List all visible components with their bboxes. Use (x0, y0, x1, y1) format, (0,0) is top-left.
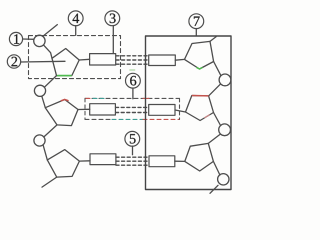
left strand 3-prime end tick (42, 177, 57, 187)
wire phosphate2R to sugar3R (208, 134, 220, 143)
wire phosphate1 to sugar1 (44, 45, 52, 58)
base rectangle left 1 (90, 54, 116, 65)
phosphate circle right 1 (219, 74, 231, 86)
pointer line from label 6 to base-pair red box (132, 88, 134, 99)
wire sugar3R to phosphate3R (213, 161, 220, 175)
deoxyribose pentagon left 3 (47, 150, 79, 178)
red tint on lower-right edge of right sugar 2 (205, 115, 209, 118)
red highlighted apex of sugar 2 (61, 99, 68, 100)
label circle 5 (125, 131, 140, 146)
label circle 1 (9, 32, 22, 45)
red dashed box around base pair row 2 (85, 98, 180, 119)
wire phosphate3 to sugar3 (43, 145, 47, 160)
deoxyribose pentagon left 1 (52, 49, 79, 76)
right strand 3-prime end tick (210, 185, 218, 193)
pointer line from label 7 to right strand box (195, 29, 197, 36)
pointer line from label 5 to hydrogen bonds row3 (132, 146, 134, 155)
wire sugar2R to phosphate2R (214, 113, 221, 126)
deoxyribose pentagon left 2 (45, 100, 78, 126)
label circle 3 (105, 11, 120, 26)
deoxyribose pentagon right 3 (185, 143, 214, 171)
left strand 5-prime end tick (43, 25, 57, 37)
wire base2R to sugar2R (175, 110, 186, 112)
wire sugar1-bottom to phosphate2 (44, 76, 56, 88)
wire sugar1R to phosphate1R (214, 62, 221, 76)
dashed box around nucleotide (label 4) (29, 36, 121, 79)
phosphate circle left 1 (34, 35, 45, 46)
green highlighted apex of right sugar 1 (197, 68, 202, 69)
right strand enclosing box (label 7) (146, 36, 232, 190)
base rectangle right 1 (149, 55, 176, 66)
wire phosphate2 to sugar2 (42, 96, 46, 108)
pointer line from label 1 to phosphate (23, 38, 34, 40)
wire sugar3 to base3 (79, 160, 90, 162)
red highlighted top edge of right sugar 2 (193, 95, 209, 97)
small green mark above label 6 (130, 69, 135, 71)
base rectangle right 2 (149, 105, 175, 116)
phosphate circle left 3 (34, 135, 45, 146)
wire base1R to sugar1R (175, 58, 184, 61)
base rectangle left 3 (90, 154, 116, 165)
wire base3R to sugar3R (175, 160, 185, 162)
deoxyribose pentagon right 2 (186, 96, 214, 121)
pointer line from label 4 to nucleotide dashed box (75, 26, 77, 36)
pointer line from label 2 to deoxyribose (21, 60, 65, 63)
wire sugar2-bottom to phosphate3 (44, 125, 57, 137)
label circle 7 (189, 14, 204, 29)
wire phosphate1R to sugar2R (209, 84, 221, 96)
wire sugar1 to base1 (79, 58, 89, 61)
phosphate circle right 3 (218, 174, 229, 185)
wire sugar2 to base2 (78, 108, 90, 110)
phosphate circle left 2 (34, 85, 45, 96)
phosphate circle right 2 (219, 124, 231, 136)
green highlighted bottom edge of sugar 1 (58, 75, 72, 77)
base rectangle left 2 (90, 104, 116, 115)
label circle 2 (7, 55, 20, 68)
pointer line from label 3 to base rect (112, 26, 114, 54)
label circle 6 (125, 73, 140, 88)
hydrogen bonds row 1 (three dashes) (116, 56, 149, 64)
label circle 4 (68, 11, 83, 26)
right strand 5-prime entry from box top (210, 37, 216, 42)
base rectangle right 3 (149, 156, 175, 167)
deoxyribose pentagon right 1 (185, 41, 214, 69)
hydrogen bonds row 3 (three dashes) (116, 157, 149, 165)
hydrogen bonds row 2 (two dashes) (116, 107, 149, 112)
